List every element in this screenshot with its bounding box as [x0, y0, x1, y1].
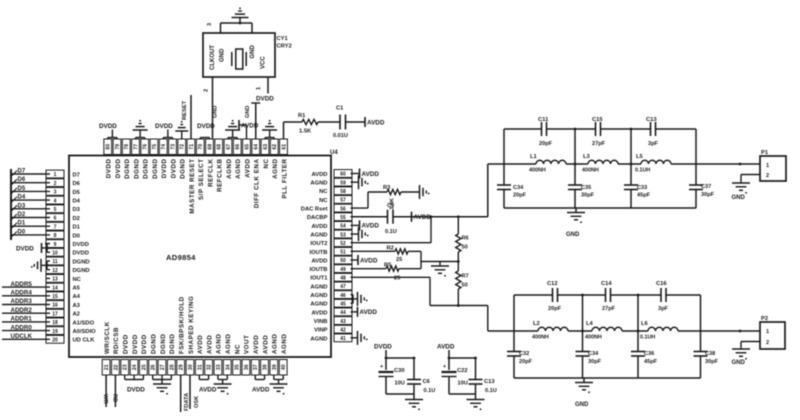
U4 pin 35 (NC) number box and inner label	[233, 344, 242, 375]
U4 pin 60 (AVDD) number box and inner label	[312, 170, 353, 178]
svg-text:DGND: DGND	[169, 334, 176, 354]
svg-text:AVDD: AVDD	[312, 310, 328, 316]
connector P2 box	[760, 316, 785, 349]
net RESET wire at pin 71	[182, 95, 191, 139]
svg-text:C13: C13	[484, 379, 495, 385]
svg-text:IOUT2: IOUT2	[310, 241, 327, 247]
svg-text:22: 22	[113, 364, 119, 370]
U4 pin 5 (D3) number box and inner label	[46, 205, 81, 213]
svg-text:28: 28	[169, 364, 175, 370]
svg-text:L5: L5	[636, 154, 644, 160]
svg-text:C5: C5	[387, 203, 394, 209]
svg-text:30pF: 30pF	[705, 359, 719, 365]
svg-text:AVDD: AVDD	[253, 335, 260, 354]
wire and top ground of oscillator	[207, 7, 252, 33]
U4 pin 45 (AGND) number box and inner label	[310, 299, 352, 307]
wire/net ADDR0 to pin 19	[2, 324, 50, 331]
svg-text:C6: C6	[423, 379, 431, 385]
ground at pins 26-28	[153, 375, 172, 395]
svg-text:GND: GND	[245, 106, 251, 118]
svg-text:DACBP: DACBP	[307, 215, 328, 221]
svg-text:FSK/BPSK/HOLD: FSK/BPSK/HOLD	[178, 296, 185, 354]
capacitor C32 20pF	[507, 351, 533, 365]
svg-text:UDCLK: UDCLK	[11, 333, 33, 340]
svg-text:R1: R1	[298, 113, 306, 119]
svg-text:DVDD: DVDD	[99, 123, 117, 130]
U4 pin 41 (AGND) number box and inner label	[310, 334, 352, 342]
svg-text:L3: L3	[583, 154, 591, 160]
svg-text:33: 33	[216, 364, 222, 370]
svg-text:+: +	[380, 364, 383, 370]
svg-text:1: 1	[256, 87, 262, 90]
svg-text:RD/CSB: RD/CSB	[113, 327, 120, 354]
svg-text:64: 64	[254, 144, 260, 150]
U4 pin 31 (AVDD) number box and inner label	[195, 335, 204, 375]
svg-text:DVDD: DVDD	[161, 159, 168, 179]
svg-text:DGND: DGND	[73, 259, 90, 265]
power flag AVDD at DACBP	[412, 212, 432, 222]
power flag AVDD at pin 60	[351, 169, 380, 179]
svg-text:69: 69	[208, 144, 214, 150]
net label AVDD decoupling	[437, 344, 455, 359]
U4 pin 52 (IOUT2) number box and inner label	[310, 239, 352, 247]
ground GND at P2	[732, 342, 761, 367]
svg-text:AVDD: AVDD	[244, 158, 251, 177]
wire C5 to AVDD flag and node	[393, 216, 488, 218]
U4 pin 63 (NC) number box and inner label	[261, 139, 270, 169]
svg-text:DGND: DGND	[152, 159, 159, 179]
U4 pin 7 (D1) number box and inner label	[46, 222, 81, 230]
U4 pin 65 (AVDD) number box and inner label	[243, 139, 252, 178]
inductor L5 0.1UH	[631, 154, 696, 174]
svg-text:7: 7	[54, 224, 57, 230]
U4 pin 1 (D7) number box and inner label	[46, 170, 80, 178]
svg-text:32: 32	[207, 364, 213, 370]
U4 pin 30 (SHAPED KEYING) number box and inner label	[186, 296, 195, 375]
power flag DVDD at oscillator pin 1	[256, 77, 274, 103]
svg-text:R2: R2	[387, 246, 394, 252]
oscillator CY1 labels	[277, 36, 292, 50]
svg-text:20pF: 20pF	[513, 193, 527, 199]
svg-text:14: 14	[52, 285, 58, 291]
U4 pin 10 (DVDD) number box and inner label	[46, 248, 89, 256]
svg-text:15: 15	[52, 294, 58, 300]
U4 pin 64 (DIFF CLK ENA) number box and inner label	[252, 139, 261, 208]
U4 pin 59 (AGND) number box and inner label	[310, 178, 352, 186]
svg-text:50: 50	[340, 258, 346, 264]
U4 pin 76 (DGND) number box and inner label	[141, 139, 150, 179]
svg-text:AVDD: AVDD	[252, 387, 270, 394]
svg-text:C11: C11	[538, 117, 549, 123]
svg-text:A3: A3	[73, 303, 81, 309]
U4 pin 17 (A2) number box and inner label	[46, 309, 80, 317]
svg-text:C22: C22	[457, 368, 468, 374]
svg-text:0.1UH: 0.1UH	[640, 335, 655, 341]
capacitor C16 3pF	[656, 281, 669, 312]
svg-text:0.1UH: 0.1UH	[635, 168, 650, 174]
svg-text:FDATA: FDATA	[184, 393, 190, 411]
svg-text:DGND: DGND	[151, 334, 158, 354]
svg-text:25: 25	[141, 364, 147, 370]
ground after R3	[420, 185, 430, 199]
svg-text:0.1U: 0.1U	[424, 388, 436, 394]
U4 pin 48 (IOUT1) number box and inner label	[310, 273, 352, 281]
U4 pin 71 (MASTER RESET) number box and inner label	[187, 139, 196, 214]
svg-text:C14: C14	[601, 281, 612, 287]
svg-text:60: 60	[340, 172, 346, 178]
svg-text:DVDD: DVDD	[256, 96, 274, 103]
U4 pin 77 (DGND) number box and inner label	[132, 139, 141, 179]
U4 pin 38 (AVDD) number box and inner label	[261, 335, 270, 375]
svg-text:D5: D5	[18, 186, 26, 192]
U4 pin 36 (VOUT) number box and inner label	[242, 335, 251, 375]
svg-text:DGND: DGND	[133, 159, 140, 179]
svg-text:PLL FILTER: PLL FILTER	[281, 159, 288, 199]
svg-text:OSK: OSK	[194, 396, 200, 408]
U4 pin 9 (DVDD) number box and inner label	[46, 240, 89, 248]
svg-text:AGND: AGND	[310, 232, 327, 238]
svg-text:C13: C13	[646, 117, 657, 123]
power flag AVDD at pin 65	[239, 120, 259, 139]
svg-text:ADDR2: ADDR2	[11, 307, 33, 314]
svg-text:1.5K: 1.5K	[299, 129, 312, 135]
svg-text:REFCLK: REFCLK	[207, 159, 214, 187]
svg-text:0.01U: 0.01U	[333, 133, 348, 139]
data bus line	[10, 169, 12, 240]
wire R3 to ground	[401, 191, 420, 193]
svg-text:CRY2: CRY2	[277, 44, 292, 50]
wire/net ADDR5 to pin 14	[2, 281, 50, 288]
svg-text:59: 59	[340, 180, 346, 186]
net label DVDD decoupling	[374, 344, 392, 359]
svg-text:AGND: AGND	[310, 293, 327, 299]
resistor R3	[383, 185, 401, 210]
svg-text:38: 38	[263, 364, 269, 370]
power flag DVDD to pins 9-10	[16, 243, 50, 253]
svg-text:P2: P2	[761, 316, 768, 322]
U4 pin 37 (AVDD) number box and inner label	[251, 335, 260, 375]
svg-text:11: 11	[52, 259, 58, 265]
svg-text:C35: C35	[581, 185, 591, 191]
svg-text:30: 30	[188, 364, 194, 370]
svg-text:0.1U: 0.1U	[385, 229, 397, 235]
svg-text:AGND: AGND	[216, 334, 223, 354]
svg-text:GND: GND	[213, 106, 219, 118]
svg-text:13: 13	[52, 277, 58, 283]
svg-text:56: 56	[340, 206, 346, 212]
capacitor C33 45pF	[624, 185, 651, 199]
svg-text:1: 1	[54, 172, 57, 178]
svg-text:66: 66	[235, 144, 241, 150]
svg-text:DVDD: DVDD	[73, 251, 89, 257]
svg-text:400NH: 400NH	[532, 335, 549, 341]
svg-text:75: 75	[152, 144, 158, 150]
svg-text:20pF: 20pF	[519, 359, 533, 365]
ground at pins 39-40	[270, 375, 288, 395]
capacitor C22	[442, 358, 468, 394]
svg-text:27pF: 27pF	[592, 141, 606, 147]
svg-text:IOUTB: IOUTB	[309, 250, 327, 256]
capacitor C13 3pF	[646, 117, 659, 147]
svg-text:ADDR4: ADDR4	[11, 290, 33, 297]
svg-text:57: 57	[340, 198, 346, 204]
svg-text:37: 37	[253, 364, 259, 370]
wire bus entry D6 to pin 2	[11, 177, 50, 185]
lower filter bottom rail	[514, 377, 701, 379]
svg-text:40: 40	[281, 364, 287, 370]
svg-text:12: 12	[52, 268, 58, 274]
power flag AVDD at pin 44	[351, 307, 378, 317]
capacitor C34 30pF	[576, 351, 602, 365]
svg-text:R6: R6	[462, 236, 469, 242]
svg-text:C12: C12	[547, 281, 558, 287]
ground under AVDD group	[467, 394, 485, 410]
svg-text:C33: C33	[637, 185, 647, 191]
svg-text:18: 18	[52, 320, 58, 326]
wire/net ADDR3 to pin 16	[2, 298, 50, 305]
svg-text:71: 71	[189, 144, 195, 150]
svg-text:SHAPED KEYING: SHAPED KEYING	[188, 296, 195, 354]
U4 pin 28 (DGND) number box and inner label	[167, 334, 176, 375]
U4 pin 44 (AVDD) number box and inner label	[312, 308, 353, 316]
svg-text:9: 9	[54, 242, 57, 248]
svg-text:36: 36	[244, 364, 250, 370]
svg-text:4: 4	[54, 198, 57, 204]
svg-text:NC: NC	[319, 198, 328, 204]
svg-text:27: 27	[160, 364, 166, 370]
svg-text:35: 35	[235, 364, 241, 370]
svg-text:GND: GND	[732, 360, 746, 366]
U4 pin 69 (REFCLK) number box and inner label	[206, 139, 215, 187]
svg-text:DVDD: DVDD	[106, 159, 113, 179]
svg-text:AGND: AGND	[272, 159, 279, 179]
upper filter vertical node wires	[504, 128, 696, 208]
svg-text:74: 74	[161, 144, 167, 150]
capacitor C12 20pF	[547, 281, 562, 312]
U4 pin 26 (DGND) number box and inner label	[149, 334, 158, 375]
ground at pins 63-62	[262, 120, 277, 139]
svg-text:D5: D5	[73, 190, 81, 196]
U4 pin 11 (DGND) number box and inner label	[46, 257, 90, 265]
U4 pin 54 (AVDD) number box and inner label	[312, 222, 353, 230]
svg-text:DVDD: DVDD	[115, 159, 122, 179]
pin 9 stub wire	[45, 243, 50, 245]
svg-text:68: 68	[217, 144, 223, 150]
svg-text:400NH: 400NH	[529, 168, 546, 174]
U4 pin 56 (DAC Rset) number box and inner label	[301, 204, 352, 212]
svg-text:GND: GND	[220, 48, 226, 62]
svg-text:2: 2	[54, 181, 57, 187]
svg-text:AVDD: AVDD	[199, 387, 217, 394]
wire to P2	[701, 330, 761, 333]
svg-text:10U: 10U	[395, 381, 405, 387]
power flag DVDD at pins 80-79	[99, 123, 117, 139]
AD9854 center label	[166, 253, 196, 262]
ground at pins 77-76	[133, 120, 148, 139]
svg-text:62: 62	[272, 144, 278, 150]
svg-text:27pF: 27pF	[602, 306, 616, 312]
wire pin 61 to R1	[284, 122, 303, 139]
ground at pin 41	[351, 331, 368, 345]
U4 pin 21 (WR/SCLK) number box and inner label	[102, 321, 111, 375]
U4 pin 43 (VINB) number box and inner label	[314, 317, 352, 325]
svg-text:20pF: 20pF	[548, 306, 562, 312]
U4 pin 32 (AVDD) number box and inner label	[205, 335, 214, 375]
net RD wire	[111, 375, 117, 407]
svg-text:1: 1	[766, 163, 769, 169]
svg-text:24: 24	[132, 364, 138, 370]
svg-text:U4: U4	[330, 150, 338, 156]
svg-text:53: 53	[340, 232, 346, 238]
ground GND under lower filter	[575, 378, 593, 408]
oscillator inner pin names	[210, 45, 267, 71]
svg-text:DVDD: DVDD	[155, 123, 173, 130]
U4 pin 39 (AGND) number box and inner label	[270, 334, 279, 375]
inductor L3 400NH	[575, 154, 631, 174]
U4 pin 4 (D4) number box and inner label	[46, 196, 81, 204]
U4 pin 14 (A5) number box and inner label	[46, 283, 81, 291]
svg-text:0.1U: 0.1U	[485, 388, 497, 394]
svg-text:3: 3	[54, 190, 57, 196]
svg-text:C15: C15	[592, 117, 603, 123]
U4 pin 13 (NC) number box and inner label	[46, 275, 82, 283]
wire bus entry D7 to pin 1	[11, 169, 50, 177]
svg-text:50: 50	[462, 245, 468, 251]
U4 pin 70 (S/P SELECT) number box and inner label	[196, 139, 205, 200]
svg-text:AGND: AGND	[310, 302, 327, 308]
ground at pin 59	[351, 175, 369, 189]
svg-text:67: 67	[226, 144, 232, 150]
resistor R1	[298, 113, 318, 135]
resistor R5 25	[351, 263, 422, 282]
svg-text:D4: D4	[18, 195, 26, 201]
svg-text:51: 51	[340, 250, 346, 256]
svg-text:ADDR3: ADDR3	[11, 298, 33, 305]
upper filter top rail	[504, 128, 696, 130]
wire/net UDCLK to pin 20	[2, 333, 50, 340]
svg-text:78: 78	[124, 144, 130, 150]
svg-text:19: 19	[52, 329, 58, 335]
U4 pin 24 (DVDD) number box and inner label	[130, 334, 139, 375]
svg-text:AVDD: AVDD	[312, 258, 328, 264]
svg-text:CY1: CY1	[277, 36, 289, 42]
svg-text:3: 3	[207, 23, 213, 26]
ground at pin 53	[351, 227, 369, 241]
svg-text:79: 79	[115, 144, 121, 150]
capacitor C1	[333, 106, 348, 140]
svg-text:C1: C1	[336, 106, 344, 112]
U4 pin 55 (DACBP) number box and inner label	[307, 213, 352, 221]
power flag AVDD at pin 54	[351, 220, 380, 230]
U4 pin 20 (UD CLK) number box and inner label	[46, 335, 95, 343]
capacitor C38 30pF	[694, 351, 719, 365]
wire/net ADDR2 to pin 17	[2, 307, 50, 314]
svg-text:46: 46	[340, 293, 346, 299]
svg-text:47: 47	[340, 284, 346, 290]
wire pin 56 to R3	[351, 192, 388, 208]
svg-text:76: 76	[143, 144, 149, 150]
wire bus entry D3 to pin 5	[11, 203, 50, 211]
U4 pin 62 (AGND) number box and inner label	[270, 139, 279, 179]
svg-text:D2: D2	[18, 212, 26, 218]
crystal element	[232, 49, 246, 69]
wire bus entry D4 to pin 4	[11, 195, 50, 203]
svg-text:400NH: 400NH	[582, 168, 599, 174]
U4 pin 68 (REFCLKB) number box and inner label	[215, 139, 224, 192]
svg-text:D6: D6	[73, 181, 81, 187]
power flag AVDD at pins 37-38	[252, 375, 270, 394]
svg-text:D3: D3	[73, 207, 81, 213]
svg-text:VINB: VINB	[314, 319, 328, 325]
svg-text:IOUTB: IOUTB	[309, 267, 327, 273]
U4 pin 74 (DVDD) number box and inner label	[159, 139, 168, 178]
wire bus entry D1 to pin 7	[11, 221, 50, 229]
svg-text:DGND: DGND	[180, 159, 187, 179]
net OSK wire	[190, 375, 200, 409]
ground at pins 67-66	[225, 120, 240, 139]
svg-text:DVDD: DVDD	[16, 245, 34, 252]
capacitor C36 45pF	[631, 351, 658, 365]
ground at pins 33-34	[214, 375, 232, 395]
inductor L4 400NH	[583, 321, 639, 341]
U4 pin 49 (IOUTB) number box and inner label	[309, 265, 352, 273]
svg-text:DVDD: DVDD	[73, 242, 89, 248]
capacitor C30	[379, 358, 405, 394]
wire/net ADDR1 to pin 18	[2, 316, 50, 323]
wire C1 to AVDD	[346, 121, 366, 123]
U4 pin 53 (AGND) number box and inner label	[310, 230, 352, 238]
svg-text:MASTER RESET: MASTER RESET	[189, 159, 196, 214]
net WR wire	[102, 375, 108, 407]
svg-text:54: 54	[340, 224, 346, 230]
U4 pin 2 (D6) number box and inner label	[46, 179, 81, 187]
svg-text:D7: D7	[73, 172, 80, 178]
U4 pin 61 (PLL FILTER) number box and inner label	[280, 139, 289, 199]
svg-text:D1: D1	[18, 221, 26, 227]
U4 pin 34 (AGND) number box and inner label	[223, 334, 232, 375]
svg-text:CLKOUT: CLKOUT	[210, 45, 216, 70]
svg-text:55: 55	[340, 215, 346, 221]
U4 pin 25 (DVDD) number box and inner label	[139, 334, 148, 375]
svg-text:WR: WR	[102, 394, 108, 404]
connector P1 box	[760, 150, 786, 181]
capacitor C6	[407, 358, 435, 394]
svg-text:43: 43	[340, 319, 346, 325]
capacitor C34 20pF	[497, 185, 527, 199]
lower filter top rail	[514, 294, 701, 296]
wire IOUT1 to lower filter	[351, 277, 515, 331]
svg-text:AGND: AGND	[310, 181, 327, 187]
inductor L1 400NH	[504, 154, 575, 174]
upper filter bottom rail	[504, 207, 696, 209]
svg-text:D7: D7	[18, 169, 26, 175]
U4 pin 78 (DGND) number box and inner label	[122, 139, 131, 179]
wire/net ADDR4 to pin 15	[2, 290, 50, 297]
capacitor C14 27pF	[601, 281, 616, 312]
U4 pin 79 (DVDD) number box and inner label	[113, 139, 122, 178]
svg-text:A0/SDIO: A0/SDIO	[73, 329, 97, 335]
svg-text:58: 58	[340, 189, 346, 195]
IC U4 AD9854 body	[69, 156, 331, 358]
svg-text:ADDR1: ADDR1	[11, 316, 33, 323]
U4 pin 50 (AVDD) number box and inner label	[312, 256, 353, 264]
U4 pin 6 (D2) number box and inner label	[46, 214, 80, 222]
svg-text:AGND: AGND	[281, 334, 288, 354]
U4 pin 66 (AGND) number box and inner label	[233, 139, 242, 179]
svg-text:10U: 10U	[458, 381, 468, 387]
U4 pin 16 (A3) number box and inner label	[46, 301, 81, 309]
svg-text:C16: C16	[656, 281, 667, 287]
